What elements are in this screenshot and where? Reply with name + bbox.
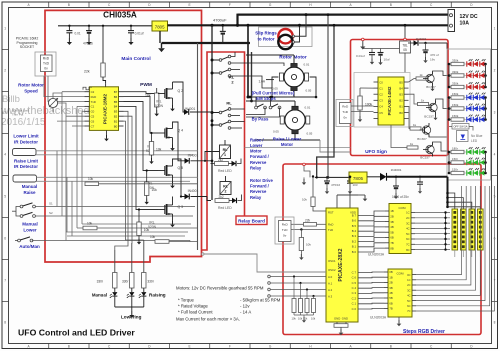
resistor 2k2 RL1 (215, 162, 229, 166)
wire slip ring to 12V (292, 35, 294, 37)
LED row blue 3 (464, 119, 486, 121)
pulse waveform glyph (83, 87, 92, 90)
IC U1 PICAXE-18M2 (89, 87, 118, 131)
svg-text:3: 3 (4, 111, 6, 115)
wire 12V bus upper (238, 14, 449, 16)
svg-text:7: 7 (4, 279, 6, 283)
svg-text:5C: 5C (407, 299, 410, 303)
svg-text:B.1: B.1 (352, 245, 357, 249)
svg-text:GND: GND (342, 316, 348, 320)
svg-text:Q 2: Q 2 (178, 89, 184, 93)
svg-text:5B: 5B (389, 296, 392, 300)
ground ULN2 (398, 317, 400, 320)
svg-text:10k: 10k (306, 242, 311, 246)
wire LED green rail (448, 152, 450, 173)
svg-text:B4: B4 (114, 105, 118, 109)
LED row blue 2 (464, 108, 486, 110)
svg-text:4C: 4C (406, 227, 409, 231)
wire 12V steps thick (387, 176, 448, 178)
svg-text:TxD: TxD (342, 110, 348, 114)
svg-text:E: E (189, 3, 191, 7)
mosfet Q5 IRL520N (158, 170, 165, 172)
svg-text:5B: 5B (390, 230, 393, 234)
svg-text:C.4: C.4 (352, 286, 357, 290)
svg-text:470 uf: 470 uf (430, 53, 439, 57)
resistor 2k2 RL2 (215, 199, 229, 203)
svg-text:16v: 16v (430, 58, 435, 62)
motor rotor M1 (284, 67, 304, 87)
capacitor 0.01uf UFO (371, 49, 373, 53)
svg-text:2: 2 (4, 69, 6, 73)
capacitor 475/16 (326, 177, 328, 181)
switch EM stop 2 (269, 106, 272, 109)
steps RGB driver red box (283, 164, 481, 335)
regulator 7805 number 2 (349, 172, 367, 183)
svg-text:* Rated Voltage: * Rated Voltage (178, 304, 208, 309)
svg-text:150r: 150r (452, 157, 458, 161)
resistor 150r green row 2 (448, 161, 451, 164)
svg-text:1: 1 (494, 27, 496, 31)
svg-text:0.01: 0.01 (304, 63, 310, 67)
svg-text:Trim Pot: Trim Pot (12, 113, 23, 117)
wire 5V rail (58, 25, 152, 27)
LED row red 3 (464, 86, 486, 88)
svg-text:RL: RL (223, 148, 229, 152)
svg-text:7805: 7805 (353, 176, 364, 181)
svg-text:Steps RGB Driver: Steps RGB Driver (403, 329, 445, 335)
svg-text:Reverse: Reverse (250, 160, 267, 165)
LED red RL2 (232, 198, 237, 203)
svg-text:C0: C0 (91, 110, 95, 114)
LED row green 3 (464, 172, 486, 174)
svg-text:6C: 6C (406, 237, 409, 241)
svg-text:B1: B1 (114, 119, 118, 123)
resistor 180r green row 1 (448, 151, 451, 154)
svg-text:RxD: RxD (328, 222, 333, 226)
wire relay common down (211, 25, 213, 200)
svg-text:RxD: RxD (342, 104, 349, 108)
svg-text:150r: 150r (452, 167, 458, 171)
IR detector lower (13, 149, 37, 156)
svg-text:RL: RL (223, 185, 229, 189)
wire motor1 top (293, 55, 295, 63)
transistor T1 BC337 (426, 74, 434, 82)
svg-text:0.01: 0.01 (75, 32, 81, 36)
wire serial grey long (203, 254, 326, 272)
wire IC outputs down (115, 111, 128, 250)
svg-text:4: 4 (4, 153, 6, 157)
svg-text:475/16: 475/16 (331, 183, 341, 187)
svg-text:8B: 8B (390, 246, 393, 250)
svg-text:No Blue: No Blue (471, 134, 483, 138)
programming socket 3 (336, 100, 353, 127)
wire IC to Q5 gate (124, 102, 159, 171)
svg-text:1C: 1C (406, 211, 409, 215)
resistor 10k serial (300, 228, 302, 230)
svg-text:B5: B5 (114, 100, 118, 104)
svg-text:Manual: Manual (22, 222, 38, 227)
resistor 1k t3 (410, 127, 421, 130)
svg-text:C.1: C.1 (352, 302, 357, 306)
svg-text:5: 5 (4, 195, 6, 199)
svg-text:B2: B2 (399, 99, 403, 103)
svg-text:330r: 330r (122, 280, 129, 284)
wire ground bus (162, 42, 251, 44)
svg-text:C.6: C.6 (352, 276, 357, 280)
svg-text:SOCKET: SOCKET (20, 45, 35, 49)
svg-text:- 14 A: - 14 A (240, 310, 251, 315)
svg-text:330r: 330r (97, 280, 104, 284)
svg-text:0C: 0C (407, 273, 410, 277)
svg-text:18k: 18k (145, 94, 151, 98)
svg-text:3C: 3C (406, 221, 409, 225)
svg-text:0.05: 0.05 (273, 130, 279, 134)
svg-text:EM Stops: EM Stops (256, 96, 276, 101)
svg-text:TxD: TxD (43, 61, 50, 65)
resistor 330r raising (130, 273, 134, 289)
wire socket3 to U2 (351, 105, 374, 107)
switch EM stop 1 (255, 106, 258, 109)
svg-text:10k: 10k (302, 197, 307, 201)
svg-text:Main Control: Main Control (121, 56, 150, 62)
svg-text:B: B (68, 3, 70, 7)
IC U3 PICAXE-28X2 (326, 208, 358, 322)
wire bundle left (56, 151, 58, 207)
svg-text:PICAXE-18M2: PICAXE-18M2 (103, 93, 108, 124)
LED row red 1 (464, 63, 486, 65)
wire LED red common (485, 64, 487, 87)
svg-text:A.2: A.2 (328, 288, 333, 292)
svg-text:C0: C0 (379, 80, 383, 84)
svg-text:C1: C1 (91, 105, 95, 109)
svg-text:B7: B7 (114, 90, 118, 94)
svg-text:Relay Board: Relay Board (238, 219, 265, 224)
svg-text:B.0: B.0 (352, 250, 357, 254)
wire A inputs (268, 275, 271, 278)
svg-text:RxD: RxD (282, 222, 289, 226)
svg-text:10k: 10k (156, 148, 162, 152)
connector 12V input (448, 10, 455, 32)
wire motor2 top (294, 101, 296, 106)
wire coil2 (225, 176, 227, 182)
wire indicator common (114, 297, 116, 307)
connector strips RGB (452, 209, 458, 250)
svg-text:BC337: BC337 (426, 85, 436, 89)
svg-text:1: 1 (224, 153, 226, 157)
wire IC to Q2 gate (124, 92, 159, 94)
wire UFO top rail (363, 48, 400, 50)
resistor 330k red row 1 (448, 63, 451, 66)
wire strip top feeds (448, 193, 455, 209)
svg-text:Rotor Drive: Rotor Drive (250, 178, 273, 183)
svg-text:Red LED: Red LED (218, 169, 232, 173)
svg-text:Lower: Lower (250, 143, 263, 148)
svg-text:OSC1: OSC1 (328, 259, 336, 263)
svg-text:8: 8 (4, 321, 6, 325)
svg-text:B3: B3 (114, 110, 118, 114)
svg-text:B3: B3 (399, 93, 403, 97)
relay RL2 contacts (219, 59, 222, 62)
svg-text:RxD: RxD (91, 95, 97, 99)
svg-text:10k: 10k (88, 177, 94, 181)
svg-text:2C: 2C (407, 283, 410, 287)
ground Q2 source (172, 102, 174, 106)
svg-text:Lower: Lower (23, 227, 37, 232)
svg-text:10uf: 10uf (384, 57, 390, 61)
svg-text:RxD: RxD (43, 56, 50, 60)
programming socket 4 (275, 217, 294, 244)
wire ULN1 to strips (445, 213, 447, 250)
relay board label box (236, 216, 267, 225)
svg-text:1B: 1B (390, 209, 393, 213)
svg-text:1N4001: 1N4001 (416, 37, 427, 41)
svg-text:1B: 1B (389, 275, 392, 279)
svg-text:22k: 22k (84, 70, 90, 74)
wire TxD serial (291, 229, 326, 231)
svg-text:7C: 7C (406, 243, 409, 247)
svg-text:Red LED: Red LED (218, 206, 232, 210)
svg-text:C.2: C.2 (352, 296, 357, 300)
wire switches S1 S2 (16, 207, 20, 217)
svg-text:C6: C6 (91, 119, 95, 123)
svg-text:0.01uf: 0.01uf (135, 32, 144, 36)
IC surround box UFO (354, 73, 410, 128)
resistor 330k red row 3 (448, 86, 451, 89)
svg-text:B4: B4 (399, 86, 403, 90)
LED row blue 1 (464, 97, 486, 99)
svg-text:Speed: Speed (24, 88, 38, 93)
svg-text:1: 1 (4, 27, 6, 31)
resistor 10k Q3 gate (137, 222, 141, 236)
resistor 1k t4 (407, 146, 418, 149)
trim pot 10k (48, 98, 57, 107)
wire IR detector lower (36, 150, 198, 152)
svg-text:0B: 0B (389, 270, 392, 274)
wire IC to Q4 gate (124, 97, 159, 133)
no blue LED box (457, 131, 469, 142)
svg-text:C.5: C.5 (352, 281, 357, 285)
svg-text:2k2: 2k2 (218, 158, 223, 162)
IC U5 ULN2003A lower (388, 269, 412, 317)
resistor 330k red row 2 (448, 74, 451, 77)
svg-text:A.0: A.0 (328, 275, 333, 279)
svg-text:Billb: Billb (2, 94, 20, 105)
ground steps entry (303, 177, 305, 179)
wire IC to Q3 gate (124, 106, 159, 209)
svg-text:B.4: B.4 (352, 229, 357, 233)
svg-text:S1: S1 (49, 202, 53, 206)
svg-text:2k2: 2k2 (219, 195, 224, 199)
svg-text:2C: 2C (406, 216, 409, 220)
svg-text:ULN2003A: ULN2003A (370, 316, 387, 320)
svg-text:2B: 2B (389, 281, 392, 285)
mosfet Q4 IRL520N (158, 132, 165, 134)
LED red RL1 (232, 161, 237, 166)
svg-text:5C: 5C (406, 232, 409, 236)
regulator 78L05 (400, 41, 411, 53)
svg-text:B.5: B.5 (352, 224, 357, 228)
relay coil RL1 (220, 145, 231, 159)
relay board red box (202, 52, 245, 250)
svg-text:4C: 4C (407, 294, 410, 298)
wire LED blue common (485, 98, 487, 120)
svg-text:150k: 150k (452, 92, 459, 96)
svg-text:0.05: 0.05 (307, 132, 313, 136)
svg-text:BC337: BC337 (424, 114, 434, 118)
resistor 10k Q4 gate (149, 142, 153, 156)
svg-text:B.7: B.7 (352, 213, 357, 217)
svg-text:0.01uf: 0.01uf (356, 54, 365, 58)
wire 78L05 out (404, 53, 406, 73)
IR detector raise (13, 175, 37, 182)
wire gnd drop to steps (317, 25, 334, 177)
resistor 330r lowering (142, 273, 146, 289)
wire bus to 78L05 (404, 25, 406, 41)
resistor under U3 (334, 324, 348, 328)
svg-text:0v: 0v (44, 66, 48, 70)
svg-text:BC307: BC307 (417, 137, 427, 141)
svg-text:TxD: TxD (328, 228, 333, 232)
mosfet Q2 IRL520N (158, 93, 165, 95)
svg-text:S2: S2 (49, 211, 53, 215)
svg-text:78L: 78L (402, 43, 408, 47)
svg-text:UFO Control and LED Driver: UFO Control and LED Driver (18, 327, 135, 337)
svg-text:103: 103 (353, 183, 358, 187)
svg-text:COM: COM (397, 271, 405, 275)
svg-text:2016/1/15: 2016/1/15 (1, 117, 46, 128)
svg-text:B: B (68, 345, 70, 349)
svg-text:C.3: C.3 (352, 291, 357, 295)
mosfet Q3 IRL520N (158, 209, 165, 211)
wire IR detector raise (37, 176, 198, 178)
transistor T3 BC307 (422, 126, 430, 134)
wire indicator feeds (114, 250, 116, 273)
svg-text:IN4001: IN4001 (188, 153, 199, 157)
svg-text:C.0: C.0 (352, 307, 357, 311)
svg-text:ULN2003A: ULN2003A (368, 252, 385, 256)
svg-text:520N: 520N (155, 104, 164, 108)
ground UFO entry (362, 38, 365, 41)
svg-text:Motor: Motor (250, 149, 262, 154)
svg-text:470/16: 470/16 (83, 42, 93, 46)
svg-text:UFO Sign: UFO Sign (365, 149, 387, 155)
svg-text:Motor: Motor (281, 142, 293, 147)
capacitor 470/16 (88, 26, 90, 31)
svg-text:330k: 330k (452, 70, 459, 74)
svg-text:COM: COM (399, 206, 407, 210)
svg-text:F: F (229, 345, 231, 349)
svg-text:330k: 330k (452, 81, 459, 85)
resistor 1k t2 (418, 102, 429, 105)
wire bundle to IC1 (61, 92, 63, 93)
IC U1 power pins (105, 83, 107, 86)
svg-text:PICAXE-28X2: PICAXE-28X2 (338, 248, 344, 281)
svg-text:CHI035A: CHI035A (103, 11, 137, 20)
svg-text:C4: C4 (379, 105, 383, 109)
svg-text:7C: 7C (407, 309, 410, 313)
svg-text:B: B (390, 345, 392, 349)
svg-text:- 50kg/cm at 55 RPM: - 50kg/cm at 55 RPM (240, 298, 281, 303)
resistor 150k blue row 3 (448, 118, 451, 121)
wire 12V bus lower (168, 24, 449, 26)
svg-text:Lower Limit: Lower Limit (13, 134, 39, 139)
svg-text:Motors: 12v DC Reversible gea: Motors: 12v DC Reversible gearhead 55 RP… (176, 286, 264, 291)
svg-text:PICAXE 16M2: PICAXE 16M2 (16, 36, 39, 40)
label 1000uF wire bundle U3 to ULN1 (358, 211, 385, 216)
regulator 7805 (152, 21, 168, 31)
svg-text:PICAXE-14M2: PICAXE-14M2 (387, 86, 392, 115)
svg-text:3C: 3C (407, 288, 410, 292)
programming socket 1 (35, 52, 56, 76)
svg-text:Raise: Raise (23, 190, 36, 195)
svg-text:0v: 0v (344, 116, 348, 120)
capacitor 103 (349, 177, 351, 181)
wire motor2 bottom (294, 134, 296, 140)
svg-text:to Rotor: to Rotor (257, 37, 274, 42)
resistor 330r manual (113, 273, 117, 289)
svg-text:7805: 7805 (155, 24, 165, 29)
wire LED blue rail (448, 98, 450, 120)
LED row red 2 (464, 75, 486, 77)
svg-text:05: 05 (403, 48, 407, 52)
transistor T4 BC337 (426, 145, 434, 153)
svg-text:Programming: Programming (16, 41, 37, 45)
svg-text:1C: 1C (407, 278, 410, 282)
svg-text:Manual: Manual (22, 184, 38, 189)
svg-text:Raise / Lower: Raise / Lower (273, 136, 302, 141)
svg-text:0v: 0v (283, 234, 287, 238)
svg-text:7B: 7B (389, 307, 392, 311)
capacitor 470uf 16v (424, 42, 426, 44)
svg-text:B0: B0 (399, 111, 403, 115)
svg-text:B1: B1 (399, 105, 403, 109)
LED row green 1 (464, 151, 486, 153)
svg-text:C.7: C.7 (352, 270, 357, 274)
wire relay feed down (247, 25, 249, 97)
wire 12V drop to steps (327, 15, 329, 178)
svg-text:TxD: TxD (282, 228, 288, 232)
capacitor 0.01 (68, 26, 70, 31)
svg-text:Relay: Relay (250, 165, 262, 170)
svg-text:B.3: B.3 (352, 234, 357, 238)
LED manual indicator (114, 288, 116, 292)
svg-text:By Pass: By Pass (252, 117, 269, 122)
svg-text:* Torque: * Torque (178, 298, 195, 303)
wire LED red rail (448, 64, 450, 87)
svg-text:Raise /: Raise / (250, 137, 264, 142)
resistor 10k RST (312, 177, 314, 198)
wire motor1 caps (271, 88, 273, 97)
LED lowering indicator (143, 288, 145, 292)
svg-text:Rotor Motor: Rotor Motor (18, 83, 44, 88)
svg-text:Raising: Raising (149, 292, 166, 297)
capacitor 82n steps (419, 176, 421, 178)
svg-text:GND: GND (334, 316, 340, 320)
slip ring upper (278, 29, 292, 43)
resistor 10k Q5 gate (145, 182, 149, 196)
svg-text:BC337: BC337 (420, 155, 430, 159)
resistor 1k t1 (416, 77, 427, 80)
svg-text:C1: C1 (379, 86, 383, 90)
svg-text:Forward /: Forward / (250, 154, 270, 159)
svg-text:E: E (189, 345, 191, 349)
svg-text:7B: 7B (390, 241, 393, 245)
svg-text:3B: 3B (389, 286, 392, 290)
svg-text:PWM: PWM (140, 82, 152, 88)
svg-text:C2: C2 (91, 90, 95, 94)
svg-text:10A: 10A (460, 21, 470, 27)
svg-text:Q 3: Q 3 (178, 205, 184, 209)
